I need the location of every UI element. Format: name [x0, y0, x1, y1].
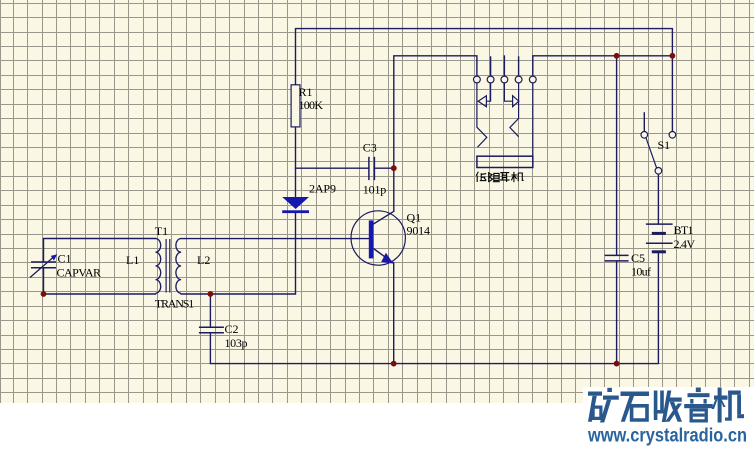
- svg-text:CAPVAR: CAPVAR: [57, 265, 102, 279]
- logo char ji: [718, 388, 722, 423]
- svg-text:C2: C2: [225, 322, 239, 336]
- svg-text:R1: R1: [299, 85, 313, 99]
- node C5 bottom: [614, 361, 620, 367]
- svg-text:S1: S1: [658, 138, 671, 152]
- svg-text:10uf: 10uf: [631, 264, 651, 278]
- headphone 低阻耳机: [474, 76, 537, 167]
- wire bottom rail: [210, 252, 658, 364]
- wire C5 bottom: [616, 261, 618, 364]
- pin 3: [501, 76, 508, 83]
- capacitor C5: [605, 255, 629, 261]
- node C5 top: [614, 53, 620, 59]
- wire S1 pole to battery: [657, 174, 659, 224]
- logo char shou: [654, 391, 658, 421]
- svg-text:TRANS1: TRANS1: [155, 296, 195, 310]
- svg-text:C1: C1: [58, 251, 72, 265]
- wire C3 right: [374, 167, 393, 169]
- logo char kuang: [588, 392, 602, 396]
- svg-text:2AP9: 2AP9: [309, 181, 336, 195]
- wire headphone stub pin3: [503, 56, 505, 76]
- wire R1 bottom to diode: [295, 127, 297, 197]
- logo char shi: [621, 392, 650, 397]
- svg-text:www.crystalradio.cn: www.crystalradio.cn: [587, 426, 747, 447]
- transformer T1 winding L2: [176, 239, 181, 294]
- transformer T1 winding L1: [156, 239, 161, 294]
- logo char yin: [696, 388, 701, 393]
- pin 5: [529, 76, 536, 83]
- wire headphone stub pin2: [490, 57, 492, 76]
- svg-text:C5: C5: [631, 251, 645, 265]
- S1 terminal A: [641, 132, 648, 139]
- wire diode to secondary bottom: [181, 213, 295, 294]
- switch S1: [641, 132, 676, 175]
- wire C1 bottom: [43, 268, 45, 294]
- wire S1 stub: [643, 113, 645, 132]
- pin 4: [515, 76, 522, 83]
- watermark logo 矿石收音机: [588, 388, 744, 423]
- capacitor C3: [369, 157, 375, 180]
- wire C3 left: [296, 167, 369, 169]
- node right rail: [670, 53, 676, 59]
- svg-text:C3: C3: [363, 140, 377, 154]
- pin 2: [487, 76, 494, 83]
- capacitor C2: [199, 327, 224, 332]
- label 低阻耳机 (drawn strokes): [476, 172, 523, 182]
- watermark white box: [0, 403, 754, 450]
- wire headphone stub pin4: [518, 57, 520, 76]
- wire emitter: [393, 263, 395, 364]
- wire C5 top: [616, 56, 618, 256]
- node C1 bottom: [41, 291, 47, 297]
- svg-text:L2: L2: [197, 253, 210, 267]
- S1 terminal B: [669, 132, 676, 139]
- wire C1 top: [44, 239, 156, 263]
- wire right rail: [533, 56, 673, 76]
- wire top rail: [296, 29, 673, 132]
- transformer T1 core: [166, 239, 170, 293]
- wire L1 bottom: [44, 293, 156, 295]
- resistor R1: [291, 85, 300, 127]
- transistor Q1: [351, 211, 405, 265]
- battery BT1: [646, 224, 673, 252]
- S1 pole: [655, 168, 662, 175]
- svg-text:T1: T1: [155, 224, 168, 238]
- svg-text:BT1: BT1: [674, 223, 694, 237]
- node C2 top: [208, 291, 214, 297]
- svg-text:L1: L1: [126, 253, 139, 267]
- wire base: [181, 238, 369, 240]
- diode 2AP9: [282, 197, 309, 213]
- svg-text:101p: 101p: [363, 183, 387, 197]
- S1 blade: [646, 138, 657, 168]
- svg-text:103p: 103p: [225, 336, 248, 350]
- variable capacitor C1: [30, 257, 56, 278]
- node C3 collector: [391, 165, 397, 171]
- pin 1: [474, 76, 481, 83]
- wire C2 top: [209, 294, 211, 327]
- svg-text:100K: 100K: [299, 98, 324, 112]
- node emitter ground: [391, 361, 397, 367]
- svg-text:2.4V: 2.4V: [674, 237, 696, 251]
- wire collector rail: [394, 56, 477, 212]
- svg-text:9014: 9014: [407, 223, 431, 237]
